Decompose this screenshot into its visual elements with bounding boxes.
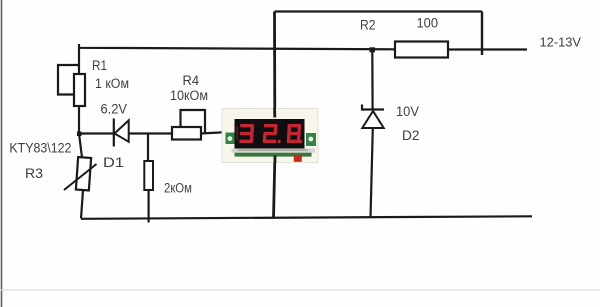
value 10V — [396, 104, 419, 119]
voltmeter module U1 photo background — [222, 109, 318, 163]
label D1 — [103, 154, 124, 170]
label D2 — [402, 127, 420, 143]
voltmeter left mounting tab — [226, 133, 236, 145]
svg-text:2кОм: 2кОм — [164, 181, 192, 196]
wire: bottom ground bus — [81, 216, 532, 219]
thermistor R3 body KTY83 — [76, 157, 91, 190]
wire: node A to D1 cathode — [79, 132, 114, 134]
value 6.2V — [101, 102, 128, 117]
wire: R1 bottom to node A — [78, 106, 80, 135]
decimal point — [278, 140, 281, 143]
label KTY83\122 — [9, 140, 71, 155]
wire: bottom lead stub leaving module — [273, 156, 276, 164]
svg-text:D2: D2 — [402, 127, 420, 143]
wire: 2kOhm bottom to ground bus — [148, 190, 150, 223]
decimal point 2 — [299, 140, 302, 143]
voltmeter display bezel — [235, 119, 305, 149]
diode D1 (zener 6.2V) cathode bar — [113, 119, 115, 147]
label R1 — [92, 57, 107, 73]
label R3 — [25, 165, 43, 181]
wire: R2 right terminal to open end 12-13V — [448, 48, 527, 50]
svg-text:R3: R3 — [25, 165, 43, 181]
wire: top loop right vertical down to bus — [481, 12, 483, 56]
wire: top feed stub entering module — [273, 108, 276, 118]
label R2 — [360, 17, 376, 33]
voltmeter trimmer pot (red) — [294, 155, 302, 162]
ghost segment — [236, 127, 238, 141]
wire: drop to 2kOhm resistor — [147, 134, 149, 162]
zener D2 triangle — [362, 111, 383, 128]
node A junction — [77, 132, 82, 137]
resistor R2 — [395, 42, 448, 58]
wire: node A down to thermistor R3 — [79, 134, 82, 158]
value 100 — [417, 15, 439, 31]
svg-text:D1: D1 — [103, 154, 124, 170]
seven segment digit 8 — [287, 124, 301, 143]
svg-text:10V: 10V — [396, 104, 419, 119]
resistor 2kOm — [144, 161, 153, 190]
voltmeter lower green pcb strip — [235, 153, 312, 157]
wire: top loop horizontal — [275, 10, 483, 12]
value 2kOm — [164, 181, 192, 196]
svg-text:10кОм: 10кОм — [170, 88, 208, 103]
svg-text:1 кОм: 1 кОм — [95, 76, 129, 91]
value 10kOm — [170, 88, 208, 103]
svg-text:R2: R2 — [360, 17, 376, 33]
thermistor R3 diagonal stroke — [64, 164, 97, 190]
wire: D2 anode down to ground bus — [371, 128, 373, 218]
wire: R1 wiper bracket (trimmer tap) — [58, 65, 79, 95]
wire: left frame line (scan border) — [1, 0, 3, 307]
label R4 — [183, 72, 200, 88]
wire: display top feed vertical — [273, 12, 276, 118]
svg-text:6.2V: 6.2V — [101, 102, 128, 117]
node B junction at R2 left / D2 — [370, 47, 376, 52]
wire: left branch vertical above R1 — [78, 48, 80, 74]
svg-text:12-13V: 12-13V — [540, 35, 582, 50]
wire: display bottom lead to bus — [274, 151, 276, 219]
label 12-13V supply — [540, 35, 582, 50]
zener D2 cathode bar with hook — [362, 105, 384, 110]
diode D1 triangle — [115, 120, 129, 142]
svg-text:R1: R1 — [92, 57, 107, 73]
wire: main top bus from left corner to R2 — [79, 44, 395, 49]
wire: D1 anode to R4 — [129, 132, 172, 134]
seven segment digit 3 — [239, 124, 254, 143]
wire: node B down to D2 cathode — [371, 50, 374, 110]
svg-text:100: 100 — [417, 15, 439, 31]
resistor R1 — [74, 74, 85, 106]
value 1 kOm — [95, 76, 129, 91]
resistor R4 body (trimmer 10k) — [172, 127, 201, 140]
voltmeter pin strip — [232, 149, 316, 153]
seven segment digit 2 — [263, 124, 278, 143]
wire: R4 to display left tab — [201, 132, 229, 134]
wire: R4 wiper bracket — [181, 110, 206, 134]
voltmeter right mounting tab — [306, 133, 316, 146]
svg-text:KTY83\122: KTY83\122 — [9, 140, 71, 155]
svg-text:R4: R4 — [183, 72, 200, 88]
wire: R3 bottom to ground bus corner — [81, 190, 83, 219]
